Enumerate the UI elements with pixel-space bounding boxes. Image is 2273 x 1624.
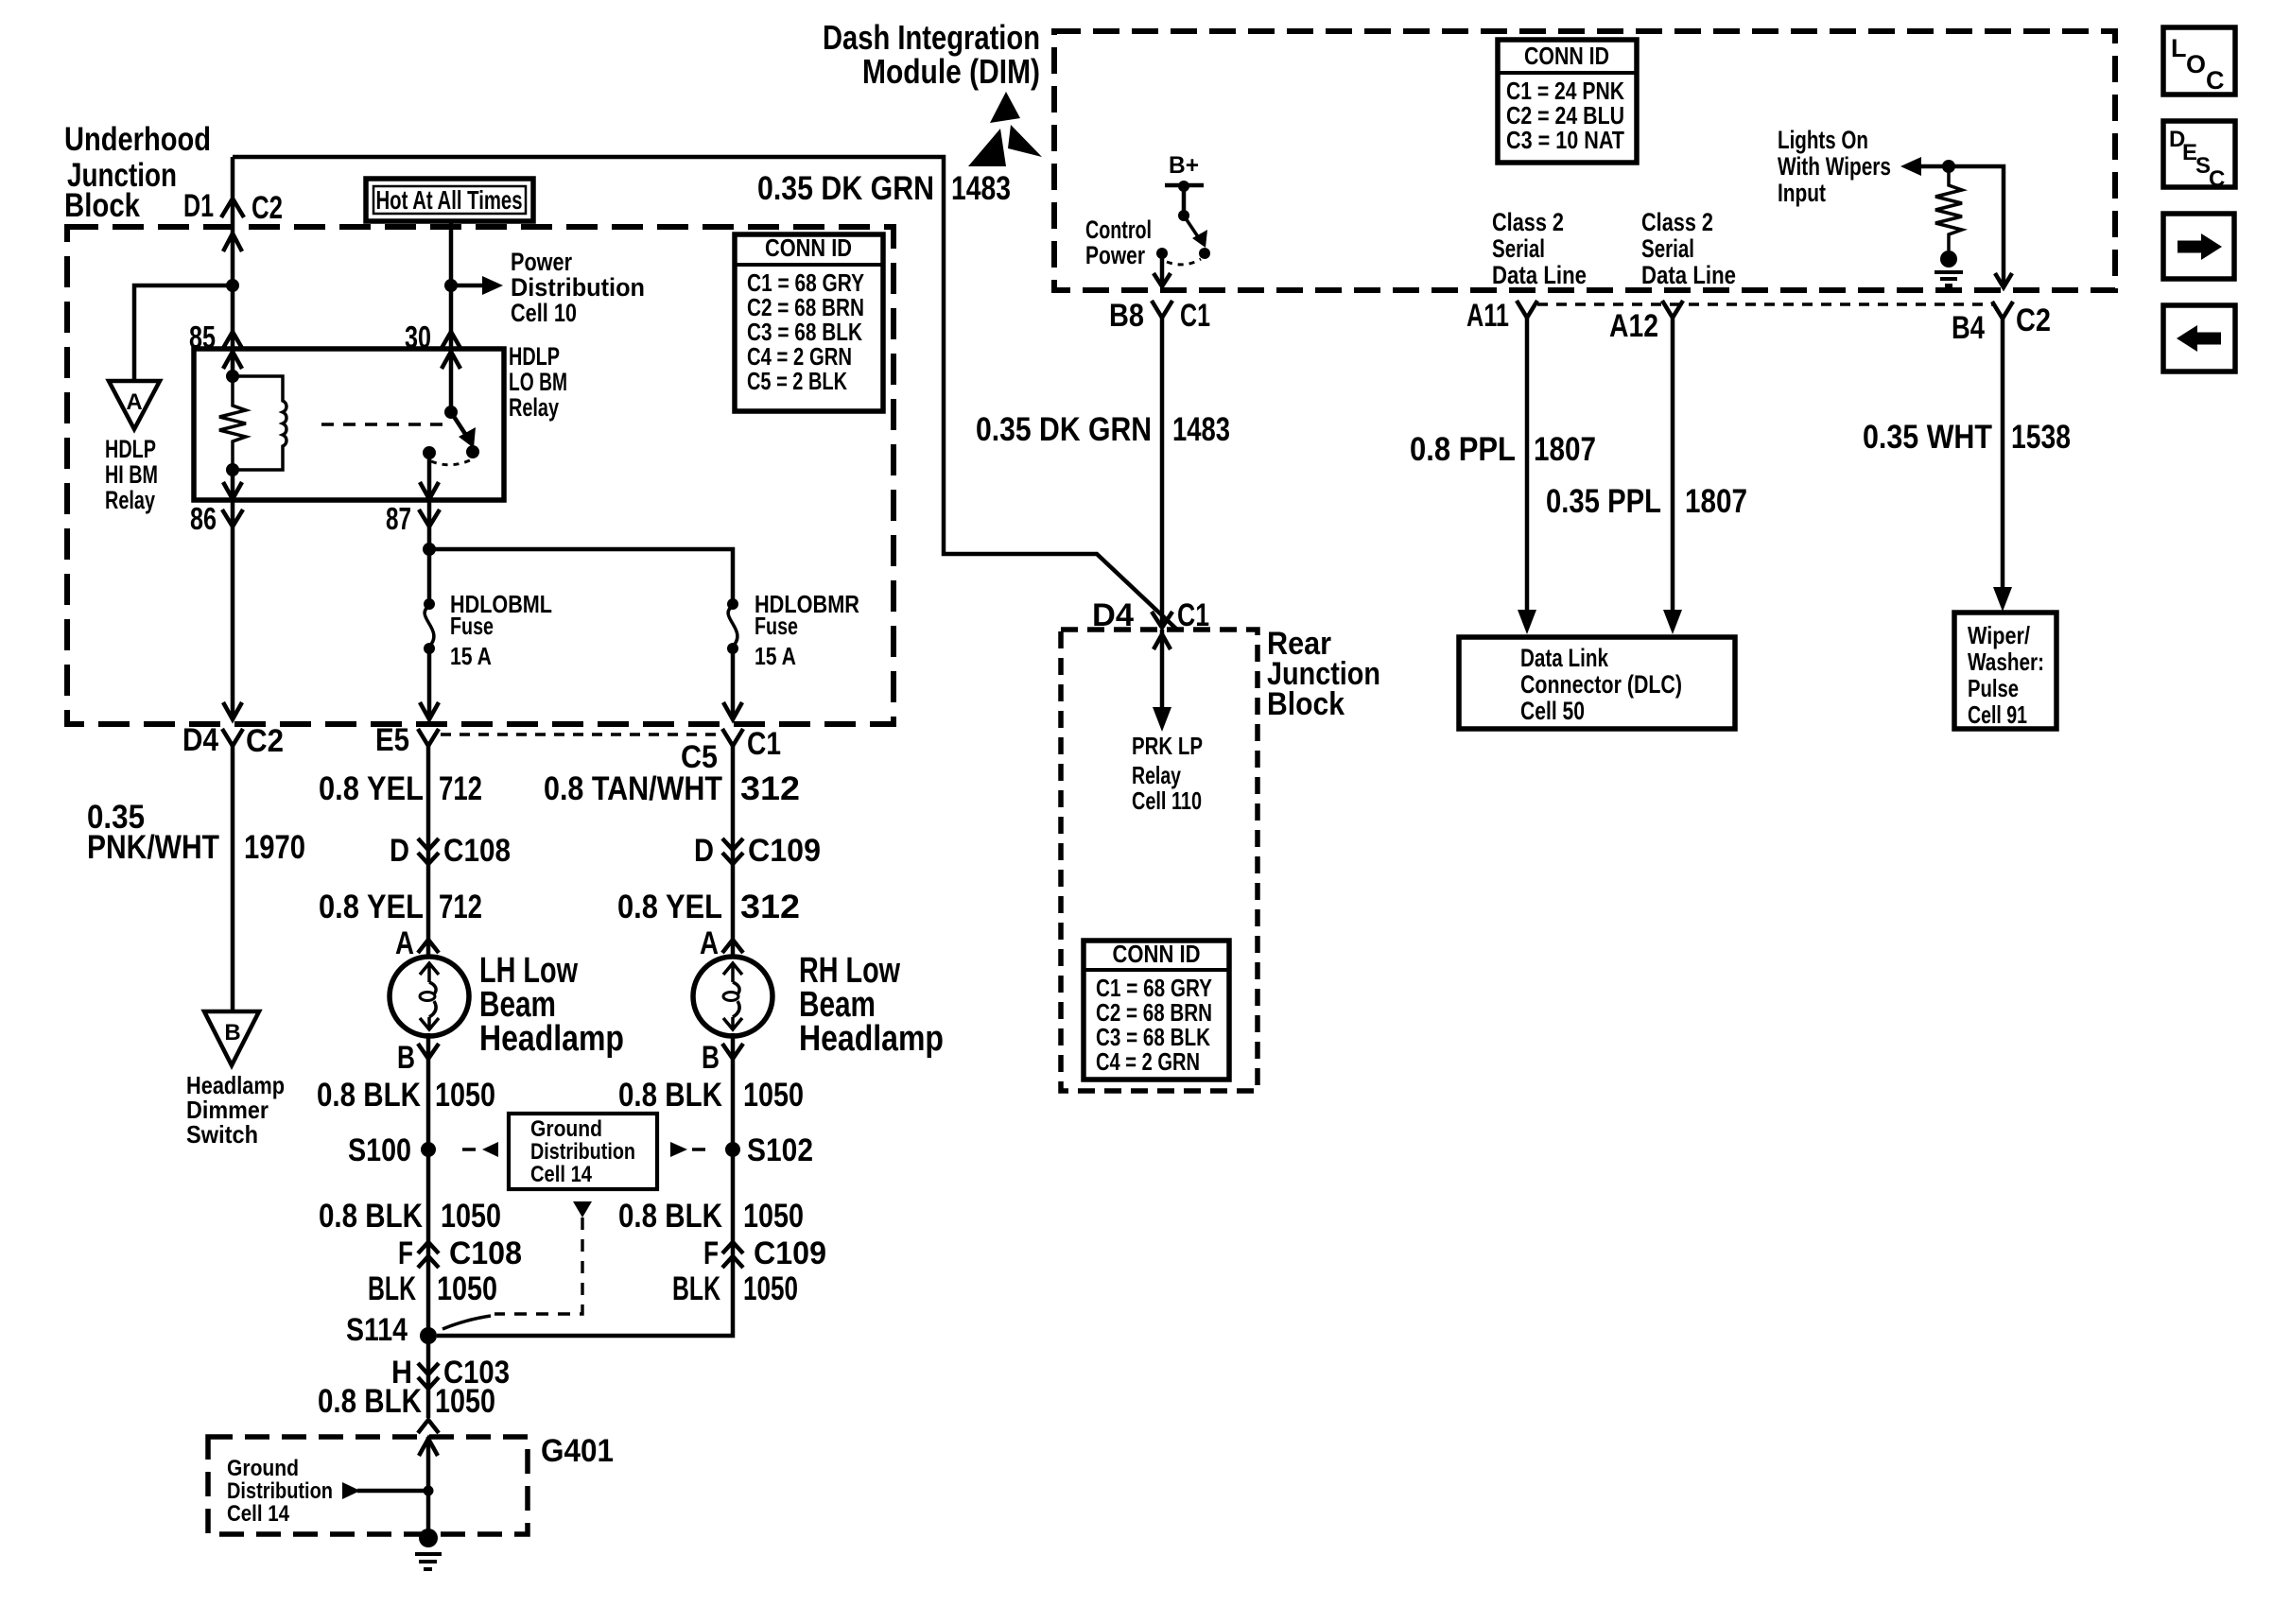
svg-text:D4: D4 <box>182 722 218 758</box>
pin B connector (RH) <box>702 1040 743 1076</box>
wire A12 to DLC 0.35 PPL 1807 <box>1663 318 1682 634</box>
connector D C108 <box>390 833 511 869</box>
svg-text:1807: 1807 <box>1685 483 1747 520</box>
label 0.8 BLK 1050 (RH lower) <box>618 1198 804 1235</box>
pin 87 connector <box>386 501 440 536</box>
svg-text:0.8 BLK: 0.8 BLK <box>317 1077 421 1114</box>
svg-text:0.8 YEL: 0.8 YEL <box>617 889 722 925</box>
label Lights On With Wipers Input <box>1778 126 1891 207</box>
svg-text:Cell 10: Cell 10 <box>511 299 577 327</box>
svg-text:1050: 1050 <box>743 1270 798 1307</box>
label 0.35 PPL 1807 <box>1546 483 1747 520</box>
svg-text:Distribution: Distribution <box>530 1139 635 1165</box>
wire E5 to LH headlamp <box>426 746 431 958</box>
svg-text:C: C <box>2209 166 2225 192</box>
svg-text:0.8 BLK: 0.8 BLK <box>318 1383 422 1420</box>
svg-text:Cell 91: Cell 91 <box>1968 700 2027 729</box>
label BLK 1050 (RH) <box>672 1270 798 1307</box>
svg-text:B: B <box>397 1040 415 1076</box>
svg-text:F: F <box>703 1235 719 1271</box>
ground symbol G401 <box>415 1529 442 1569</box>
wire 0.35 DK GRN 1483 from D1/C2 to Rear Junction Block D4/C1 <box>233 157 1178 631</box>
in-line connector dashed face E5 to C5 <box>441 733 720 735</box>
svg-text:1050: 1050 <box>435 1077 495 1114</box>
svg-text:Data Line: Data Line <box>1641 261 1736 289</box>
svg-text:Control: Control <box>1085 216 1152 244</box>
node splice to both fuses <box>423 543 436 556</box>
svg-text:B+: B+ <box>1169 152 1199 179</box>
svg-text:B4: B4 <box>1952 310 1985 346</box>
svg-text:With Wipers: With Wipers <box>1778 152 1891 181</box>
svg-text:312: 312 <box>740 770 800 807</box>
wire branch to HDLP HI BM Relay reference <box>134 285 233 381</box>
svg-text:0.8 BLK: 0.8 BLK <box>319 1198 423 1235</box>
node D1 C2 connector at top of Underhood Junction Block <box>183 188 283 226</box>
label HDLOBMR Fuse 15 A <box>755 590 859 670</box>
svg-text:Wiper/: Wiper/ <box>1968 621 2030 649</box>
svg-text:Cell 50: Cell 50 <box>1520 697 1585 725</box>
pin A connector (LH) <box>395 925 439 961</box>
svg-text:1483: 1483 <box>1172 411 1230 448</box>
label 0.35 DK GRN 1483 (upper) <box>757 170 1011 207</box>
svg-text:A: A <box>700 925 719 961</box>
wire contact to pin 87 with down arrow <box>420 453 439 499</box>
CONN ID table (DIM) <box>1498 40 1637 163</box>
label BLK 1050 (LH) <box>368 1270 497 1307</box>
svg-text:Ground: Ground <box>530 1116 602 1142</box>
node S100 splice <box>348 1132 436 1168</box>
label 0.8 BLK 1050 (G401 feed) <box>318 1383 495 1420</box>
svg-text:0.35 DK GRN: 0.35 DK GRN <box>757 170 934 207</box>
connector into G401 <box>418 1420 439 1433</box>
svg-text:Serial: Serial <box>1641 234 1694 263</box>
wire headlamp dimmer switch feed 0.35 PNK/WHT 1970 <box>231 746 235 1011</box>
svg-text:Connector (DLC): Connector (DLC) <box>1520 670 1682 699</box>
label HDLOBML Fuse 15 A <box>450 590 552 670</box>
svg-text:1050: 1050 <box>441 1198 501 1235</box>
label LH Low Beam Headlamp <box>479 951 624 1059</box>
svg-text:Underhood: Underhood <box>64 121 211 158</box>
svg-text:A: A <box>126 389 142 415</box>
svg-text:BLK: BLK <box>672 1270 720 1307</box>
label 0.35 DK GRN 1483 (B8 wire) <box>976 411 1230 448</box>
label 0.8 BLK 1050 (RH upper) <box>618 1077 804 1114</box>
Underhood Junction Block dashed boundary <box>67 227 894 724</box>
svg-text:Power: Power <box>1085 241 1145 269</box>
switch Control Power inside DIM <box>1154 210 1210 286</box>
svg-text:1538: 1538 <box>2011 419 2071 456</box>
node coil top junction <box>226 370 239 383</box>
svg-text:C1: C1 <box>1180 298 1210 334</box>
node D4 C1 connector <box>1092 597 1209 633</box>
Hot At All Times flag box <box>366 179 533 221</box>
svg-text:0.8 BLK: 0.8 BLK <box>618 1077 722 1114</box>
svg-text:S114: S114 <box>346 1312 408 1348</box>
label 0.8 YEL 312 <box>617 889 800 925</box>
connector H C103 <box>391 1355 510 1391</box>
coil inside relay <box>233 376 286 470</box>
svg-text:Data Line: Data Line <box>1492 261 1587 289</box>
svg-text:B: B <box>224 1020 240 1045</box>
label Ground Distribution Cell 14 (G401) <box>227 1456 333 1527</box>
svg-text:87: 87 <box>386 501 411 536</box>
wire from Hot At All Times down to relay pin 30 <box>449 221 454 351</box>
svg-text:Module (DIM): Module (DIM) <box>862 52 1040 91</box>
label 0.8 YEL 712 (lower) <box>319 889 482 925</box>
lamp LH Low Beam Headlamp <box>390 957 469 1036</box>
wire C5/C1 to RH headlamp <box>731 746 736 958</box>
svg-text:1050: 1050 <box>743 1198 804 1235</box>
label Dash Integration Module (DIM) <box>823 18 1040 91</box>
label Headlamp Dimmer Switch <box>186 1071 285 1149</box>
svg-text:O: O <box>2186 50 2206 78</box>
svg-text:86: 86 <box>190 501 217 536</box>
B+ supply inside DIM <box>1165 152 1204 216</box>
svg-text:712: 712 <box>439 770 482 807</box>
button next arrow <box>2163 214 2234 279</box>
label RH Low Beam Headlamp <box>799 951 944 1059</box>
svg-text:1050: 1050 <box>435 1383 495 1420</box>
label 0.35 WHT 1538 <box>1863 419 2071 456</box>
svg-text:A: A <box>395 925 414 961</box>
svg-text:E5: E5 <box>375 722 409 758</box>
svg-text:D1: D1 <box>183 188 214 224</box>
box Wiper/Washer: Pulse Cell 91 <box>1954 613 2056 729</box>
node reference triangle B <box>204 1011 259 1065</box>
pin A connector (RH) <box>700 925 743 961</box>
svg-text:HDLP: HDLP <box>509 342 560 371</box>
switch pivot dot <box>444 406 458 419</box>
svg-text:Washer:: Washer: <box>1968 648 2044 676</box>
svg-text:F: F <box>398 1235 413 1271</box>
wire right fuse to C5/C1 with down arrow at boundary <box>723 648 742 719</box>
relay coil-side up arrow <box>223 352 242 369</box>
svg-text:712: 712 <box>439 889 482 925</box>
wire pin86 down to D4/C2 with down arrow at boundary <box>223 500 242 719</box>
switch arm end contact dot <box>466 445 479 458</box>
svg-text:0.8 YEL: 0.8 YEL <box>319 770 424 807</box>
svg-text:Distribution: Distribution <box>227 1478 333 1504</box>
label 0.8 YEL 712 (upper) <box>319 770 482 807</box>
fuse HDLOBMR 15 A <box>727 598 738 654</box>
Dash Integration Module dashed boundary <box>1054 31 2115 290</box>
resistor inside relay <box>219 376 246 470</box>
svg-text:Class 2: Class 2 <box>1641 208 1713 236</box>
connector F C109 <box>703 1235 826 1271</box>
label Underhood Junction Block <box>64 121 211 224</box>
resistor pull-up inside DIM <box>1935 166 1962 251</box>
label 0.8 PPL 1807 <box>1410 431 1596 468</box>
connector D C109 <box>694 833 821 869</box>
svg-text:Relay: Relay <box>509 393 559 422</box>
mechanical linkage dashed line <box>321 423 442 425</box>
label Class 2 Serial Data Line (first) <box>1492 208 1587 289</box>
switch fixed contact dot <box>423 446 436 459</box>
svg-text:1050: 1050 <box>437 1270 497 1307</box>
wire LH headlamp ground path down to S114 <box>426 1033 431 1336</box>
node reference triangle A <box>109 381 160 429</box>
node B8 C1 connector <box>1109 298 1210 334</box>
svg-text:0.8 TAN/WHT: 0.8 TAN/WHT <box>544 770 722 807</box>
wire S102 ground distribution reference <box>670 1142 705 1157</box>
svg-text:Dash Integration: Dash Integration <box>823 18 1040 57</box>
svg-text:D: D <box>694 833 714 869</box>
pin 30 connector <box>405 320 461 354</box>
svg-text:A12: A12 <box>1609 308 1658 344</box>
ground G401 dashed box <box>208 1437 528 1534</box>
svg-text:Fuse: Fuse <box>450 612 494 640</box>
wire pin87 to fuse junction <box>427 500 432 549</box>
svg-text:1970: 1970 <box>244 829 305 866</box>
switch travel dashed arc <box>431 460 470 465</box>
wire A11 to DLC 0.8 PPL 1807 <box>1518 318 1536 634</box>
svg-text:PNK/WHT: PNK/WHT <box>87 829 219 866</box>
svg-text:Ground: Ground <box>227 1456 299 1481</box>
wire PRK LP Relay feed double arrow <box>1153 630 1171 732</box>
fuse HDLOBML 15 A <box>424 549 435 654</box>
label Rear Junction Block <box>1267 626 1380 722</box>
svg-text:S102: S102 <box>747 1132 813 1168</box>
svg-text:0.8 YEL: 0.8 YEL <box>319 889 424 925</box>
label PRK LP Relay Cell 110 <box>1132 732 1203 815</box>
node A12 connector <box>1609 301 1683 344</box>
svg-text:Input: Input <box>1778 179 1826 207</box>
svg-text:C108: C108 <box>443 833 511 869</box>
wire pin85 into relay <box>231 285 235 376</box>
button LOC <box>2163 27 2235 95</box>
in-line connector dashed face A11 to B4 <box>1537 302 1993 305</box>
svg-text:PRK LP: PRK LP <box>1132 732 1203 760</box>
svg-text:Class 2: Class 2 <box>1492 208 1564 236</box>
label 0.8 BLK 1050 (LH upper) <box>317 1077 495 1114</box>
svg-text:CONN ID: CONN ID <box>1113 940 1201 968</box>
node S102 splice <box>725 1132 813 1168</box>
wire Power Distribution reference arrow <box>451 276 503 295</box>
svg-text:Block: Block <box>1267 686 1345 722</box>
svg-text:Headlamp: Headlamp <box>799 1019 944 1059</box>
svg-text:0.8 PPL: 0.8 PPL <box>1410 431 1516 468</box>
svg-text:C4 = 2 GRN: C4 = 2 GRN <box>1096 1047 1200 1076</box>
svg-text:0.35 WHT: 0.35 WHT <box>1863 419 1992 456</box>
node coil bottom junction <box>226 463 239 476</box>
label HDLP LO BM Relay <box>509 342 567 422</box>
svg-text:CONN ID: CONN ID <box>765 233 852 262</box>
svg-text:Cell 14: Cell 14 <box>227 1501 290 1527</box>
svg-text:C1: C1 <box>747 726 781 762</box>
label Power Distribution Cell 10 <box>511 248 645 327</box>
Ground Distribution Cell 14 reference box <box>509 1114 657 1189</box>
wire B4 to Wiper/Washer 0.35 WHT 1538 <box>1993 319 2012 612</box>
node A11 connector <box>1466 298 1537 334</box>
wire coil to pin 86 with down arrow <box>223 470 242 499</box>
svg-text:L: L <box>2171 34 2187 62</box>
switch arm with arrowhead <box>451 412 476 448</box>
svg-text:1050: 1050 <box>743 1077 804 1114</box>
svg-text:G401: G401 <box>541 1433 614 1469</box>
svg-text:S100: S100 <box>348 1132 411 1168</box>
svg-text:Data Link: Data Link <box>1520 644 1609 672</box>
svg-text:HI BM: HI BM <box>105 460 158 489</box>
svg-text:C2: C2 <box>2016 302 2051 338</box>
svg-text:Cell 14: Cell 14 <box>530 1162 593 1187</box>
svg-text:HDLP: HDLP <box>105 435 156 463</box>
label HDLP HI BM Relay <box>105 435 158 514</box>
svg-text:Hot At All Times: Hot At All Times <box>376 185 523 215</box>
svg-text:C2: C2 <box>246 723 284 759</box>
svg-text:312: 312 <box>740 889 800 925</box>
svg-text:Lights On: Lights On <box>1778 126 1868 154</box>
Rear Junction Block dashed boundary <box>1061 630 1258 1091</box>
box Data Link Connector (DLC) Cell 50 <box>1459 637 1735 729</box>
wire pin30 to switch pivot with up arrow <box>442 351 460 412</box>
svg-text:CONN ID: CONN ID <box>1524 42 1609 70</box>
wire RH headlamp ground path to S114 <box>437 1033 733 1336</box>
svg-text:C109: C109 <box>754 1235 826 1271</box>
svg-text:C: C <box>2206 66 2225 95</box>
node junction dot on pin30 wire <box>444 279 458 292</box>
node S114 splice <box>346 1312 437 1348</box>
wire drain dashed from Ground Distribution box to S114 <box>442 1201 592 1329</box>
svg-text:Fuse: Fuse <box>755 612 798 640</box>
svg-text:0.35 PPL: 0.35 PPL <box>1546 483 1661 520</box>
node junction dot on D1 wire <box>226 279 239 292</box>
CONN ID table (Underhood Junction Block) <box>735 233 883 411</box>
wire D1 stub into block with up arrow <box>223 157 242 285</box>
svg-text:1483: 1483 <box>951 170 1011 207</box>
label Control Power <box>1085 216 1152 269</box>
node D4 C2 connector <box>182 722 284 759</box>
wire Lights On With Wipers input <box>1900 157 2012 287</box>
svg-text:1807: 1807 <box>1534 431 1596 468</box>
pin 86 connector <box>190 501 243 536</box>
CONN ID table (Rear Junction Block) <box>1084 940 1229 1080</box>
ESD sensitive device symbol <box>968 92 1042 166</box>
svg-text:C2: C2 <box>252 190 283 226</box>
wire S114 to G401 <box>426 1336 431 1418</box>
svg-text:Power: Power <box>511 248 572 276</box>
svg-text:C5 = 2 BLK: C5 = 2 BLK <box>747 367 847 395</box>
label Class 2 Serial Data Line (second) <box>1641 208 1736 289</box>
svg-text:Relay: Relay <box>1132 761 1181 789</box>
wire into G401 with up arrow <box>419 1437 438 1538</box>
lamp RH Low Beam Headlamp <box>693 957 772 1036</box>
svg-text:15 A: 15 A <box>450 642 492 670</box>
svg-text:B: B <box>702 1040 720 1076</box>
label 0.8 TAN/WHT 312 <box>544 770 800 807</box>
label 0.8 BLK 1050 (LH lower) <box>319 1198 501 1235</box>
svg-text:C109: C109 <box>748 833 821 869</box>
node E5 connector <box>375 722 439 758</box>
wire ground distribution reference arrow into G401 <box>342 1482 434 1499</box>
svg-text:LO BM: LO BM <box>509 368 567 396</box>
pin 85 connector <box>189 320 243 354</box>
pin B connector (LH) <box>397 1040 439 1076</box>
svg-text:C3 = 10 NAT: C3 = 10 NAT <box>1506 126 1624 154</box>
button DESC <box>2163 121 2235 192</box>
svg-text:0.8 BLK: 0.8 BLK <box>618 1198 722 1235</box>
svg-text:B8: B8 <box>1109 298 1144 334</box>
button previous arrow <box>2163 305 2235 371</box>
svg-text:Distribution: Distribution <box>511 273 645 302</box>
connector F C108 <box>398 1235 522 1271</box>
wire branch to right fuse <box>429 549 733 604</box>
svg-text:A11: A11 <box>1466 298 1509 334</box>
wire 0.35 DK GRN 1483 from B8 to D4 <box>1160 318 1165 626</box>
svg-text:Headlamp: Headlamp <box>479 1019 624 1059</box>
svg-text:Switch: Switch <box>186 1120 258 1149</box>
svg-text:15 A: 15 A <box>755 642 796 670</box>
svg-text:Serial: Serial <box>1492 234 1545 263</box>
wire left fuse to E5 with down arrow at boundary <box>420 648 439 719</box>
label 0.35 PNK/WHT 1970 <box>87 799 305 866</box>
ground inside DIM <box>1935 251 1963 285</box>
svg-text:D: D <box>390 833 409 869</box>
svg-text:Relay: Relay <box>105 486 155 514</box>
node B4 C2 connector <box>1952 302 2051 346</box>
svg-text:Block: Block <box>64 187 140 224</box>
svg-text:Pulse: Pulse <box>1968 674 2019 702</box>
node C5 C1 connector <box>681 726 781 775</box>
svg-text:Cell 110: Cell 110 <box>1132 786 1202 815</box>
svg-text:BLK: BLK <box>368 1270 416 1307</box>
wire S100 ground distribution reference <box>462 1142 498 1157</box>
svg-text:C108: C108 <box>449 1235 522 1271</box>
relay HDLP LO BM Relay box <box>194 349 504 500</box>
svg-text:0.35 DK GRN: 0.35 DK GRN <box>976 411 1152 448</box>
